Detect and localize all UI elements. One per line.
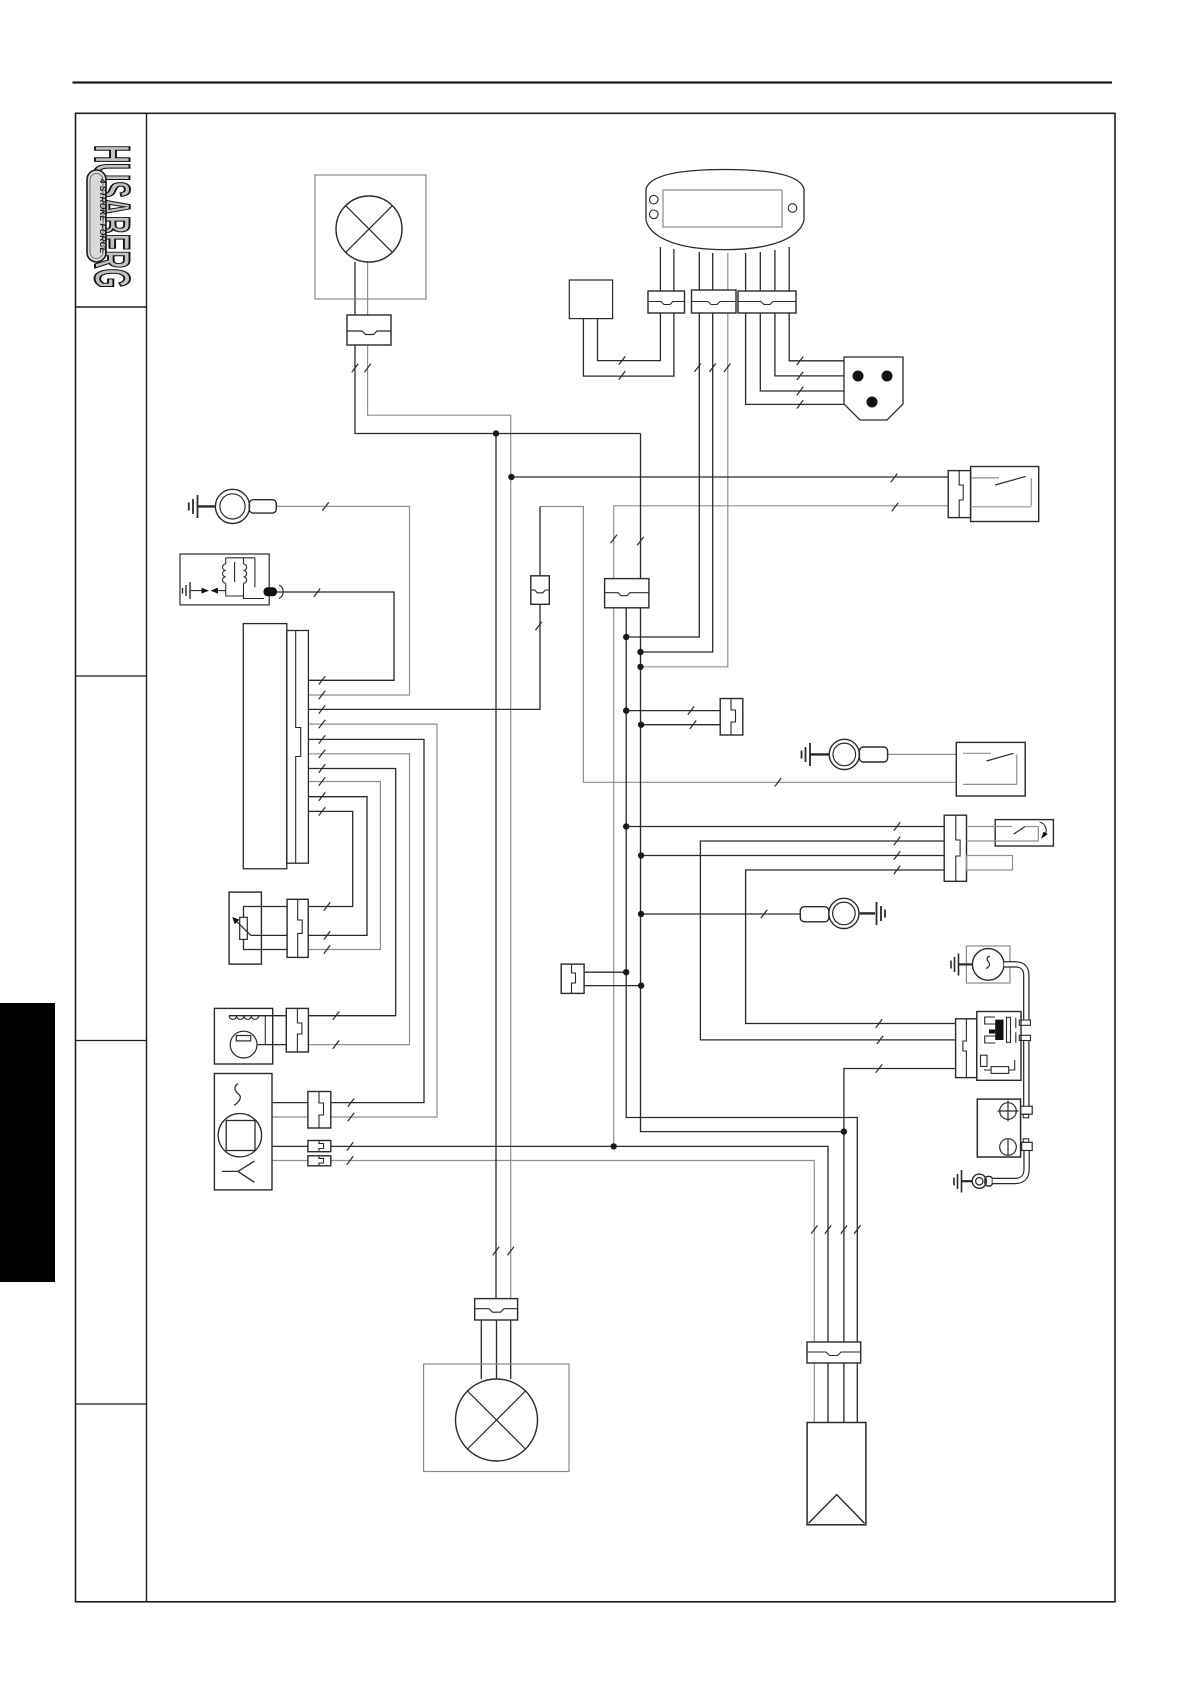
svg-text:4 STROKE FORCE: 4 STROKE FORCE <box>98 178 108 254</box>
